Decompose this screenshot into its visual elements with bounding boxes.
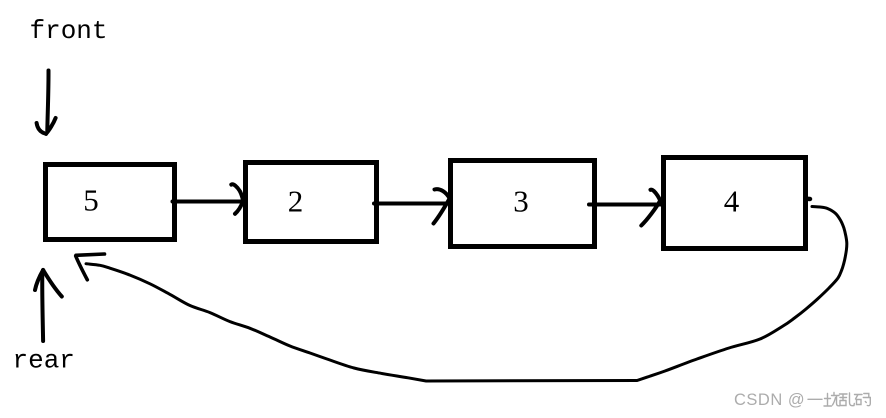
wire stub on box4 right edge [807,197,811,202]
arrowhead into box3 [434,189,450,223]
ma [855,395,863,405]
svg-text:3: 3 [513,184,529,219]
wire box3 to box4 [589,203,662,207]
watermark CJK glyphs approximated [808,393,870,407]
svg-text:front: front [30,16,108,46]
svg-text:CSDN @: CSDN @ [734,391,805,409]
yi [808,398,822,400]
wire box5 to box2 [173,200,244,204]
node box 4 [664,158,806,249]
luan [840,394,848,406]
svg-text:rear: rear [13,346,75,376]
svg-text:4: 4 [724,184,740,219]
arrow rear (up arrow) [35,270,62,341]
arrowhead of loop at box5 [76,254,105,280]
tuo [824,394,832,407]
watermark CSDN [734,391,870,409]
arrowhead into box4 [641,190,660,226]
node box 2 [246,163,377,242]
svg-text:5: 5 [83,183,99,218]
svg-text:2: 2 [288,184,304,219]
arrowhead into box2 [231,184,243,213]
wire box2 to box3 [374,202,450,206]
arrow front (down arrow) [37,71,56,134]
node box 3 [451,161,595,247]
wire loop from box4 back to box5 [86,207,847,382]
node box 5 [46,165,175,240]
